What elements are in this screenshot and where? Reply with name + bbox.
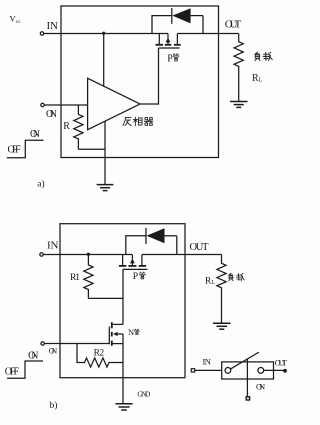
label 负载 (a) — [255, 52, 260, 61]
resistor R (a) — [74, 105, 83, 149]
wire OUT rail (a) — [177, 33, 238, 35]
wire N source to GND (b) — [122, 344, 124, 404]
wire inverter output to gate (a) — [140, 48, 159, 104]
wire ON input to gate (b) — [44, 343, 109, 345]
wire ON input (a) — [44, 104, 87, 106]
svg-text:ON: ON — [28, 351, 38, 362]
signal step ON/OFF (a) — [7, 140, 44, 158]
terminal ON (b) — [41, 342, 44, 345]
svg-text:b): b) — [50, 400, 58, 411]
svg-text:R: R — [63, 121, 70, 132]
wire switch OUT — [264, 369, 284, 371]
svg-text:P: P — [133, 272, 138, 282]
signal step ON/OFF (b) — [7, 361, 43, 378]
switch contact left — [225, 368, 231, 374]
wire inverter ground (a) — [104, 121, 106, 184]
wire R1 bottom to gate line (b) — [88, 297, 123, 299]
svg-text:GND: GND — [137, 390, 151, 399]
svg-text:N: N — [128, 327, 134, 337]
resistor RL load (a) — [234, 34, 243, 102]
svg-text:R2: R2 — [94, 349, 105, 359]
IC box (figure b) — [60, 224, 185, 378]
ground load (b) — [213, 322, 231, 324]
switch lever — [231, 352, 259, 369]
label 负载 (b) — [229, 273, 233, 281]
terminal IN (b) — [40, 253, 43, 256]
svg-text:ON: ON — [256, 381, 265, 391]
svg-text:OUT: OUT — [225, 18, 242, 30]
switch contact right — [258, 368, 264, 374]
terminal ON (a) — [41, 103, 44, 106]
label 反相器 (a) — [123, 118, 131, 126]
node junction dot R1 (b) — [87, 253, 90, 256]
svg-text:a): a) — [37, 178, 44, 189]
resistor RL load (b) — [217, 255, 226, 323]
wire IN rail (a) — [44, 33, 168, 35]
ground GND (b) — [115, 403, 132, 405]
switch actuator line — [246, 359, 248, 396]
switch box — [222, 362, 274, 379]
svg-text:OFF: OFF — [8, 145, 22, 156]
resistor R2 (b) — [77, 344, 123, 368]
switch terminal ON square — [246, 397, 249, 400]
IC box (figure a) — [61, 6, 219, 158]
transistor N1 N-MOSFET (b) — [112, 323, 123, 325]
diode D1 body diode (a) — [152, 16, 171, 34]
svg-text:IN: IN — [47, 20, 59, 32]
wire R bottom (a) — [78, 148, 105, 150]
transistor P1 P-MOSFET (a) — [158, 34, 160, 45]
svg-text:R1: R1 — [70, 273, 80, 283]
ground load (a) — [230, 101, 248, 103]
svg-text:ON: ON — [30, 129, 40, 140]
switch terminal IN square — [191, 369, 194, 372]
diode D2 body diode (b) — [126, 236, 146, 255]
wire switch IN — [195, 369, 222, 371]
svg-text:IN: IN — [203, 356, 211, 366]
switch terminal OUT dot — [283, 369, 287, 373]
svg-text:OUT: OUT — [275, 358, 288, 368]
resistor R1 (b) — [84, 255, 93, 299]
terminal IN (a) — [40, 32, 43, 35]
ground (a) — [97, 184, 114, 186]
svg-text:OUT: OUT — [190, 242, 210, 253]
wire IN rail (b) — [43, 254, 132, 256]
op-amp inverter U1 (a) — [88, 78, 140, 129]
wire inverter supply (a) — [103, 34, 105, 87]
svg-text:P: P — [167, 53, 173, 64]
transistor P2 P-MOSFET (b) — [122, 255, 124, 266]
node junction dot (a) — [102, 32, 105, 35]
wire OUT rail (b) — [142, 254, 222, 256]
svg-text:OFF: OFF — [5, 366, 20, 377]
svg-text:ON: ON — [46, 109, 57, 120]
svg-text:IN: IN — [47, 240, 59, 252]
svg-text:ON: ON — [49, 346, 58, 355]
wire P gate to N drain (b) — [122, 269, 124, 324]
